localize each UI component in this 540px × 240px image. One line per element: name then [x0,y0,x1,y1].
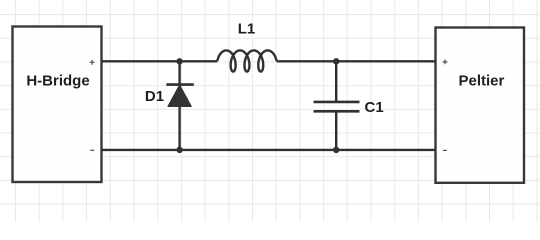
Peltier block (right box) [436,28,525,183]
junction node: bottom rail / diode D1 [176,147,182,153]
capacitor C1 bottom plate [314,110,360,113]
svg-text:H-Bridge: H-Bridge [26,72,89,89]
inductor L1 [217,50,276,71]
wire: inductor L1 right lead to Peltier + [277,60,436,62]
diode D1 cathode bar [166,83,193,86]
Peltier - terminal [443,149,447,151]
junction node: bottom rail / capacitor C1 [333,147,339,153]
diode D1 branch wire (vertical) [178,61,180,150]
capacitor C1 top lead wire [335,61,337,102]
capacitor C1 bottom lead wire [335,111,337,150]
H-Bridge - terminal [90,149,94,151]
H-Bridge + terminal [90,60,95,65]
diode D1 anode triangle [168,85,191,106]
wire: bottom rail H-Bridge - to Peltier - [102,149,436,151]
svg-text:L1: L1 [238,21,256,38]
junction node: top rail / capacitor C1 [333,58,339,64]
svg-text:D1: D1 [145,88,164,105]
svg-text:C1: C1 [365,99,384,116]
wire: H-Bridge + to inductor L1 left lead [102,60,218,62]
Peltier + terminal [443,60,448,65]
capacitor C1 top plate [314,101,360,104]
svg-text:Peltier: Peltier [458,72,504,89]
junction node: top rail / diode D1 [176,58,182,64]
H-Bridge block (left box) [13,27,102,183]
